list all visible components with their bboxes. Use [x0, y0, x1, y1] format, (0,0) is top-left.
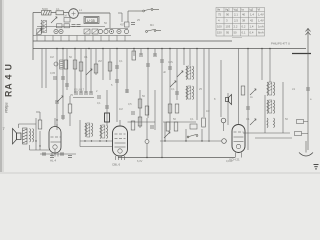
resistor on feed [38, 120, 42, 129]
wire osc row [105, 28, 128, 30]
RIFT1 winding 2 [274, 82, 275, 96]
capacitor [168, 67, 172, 69]
transformer secondary coil [30, 129, 31, 143]
trimmer arrow [170, 81, 176, 87]
junction dots [35, 140, 36, 141]
trimmer circle [54, 62, 58, 66]
svg-text:Vg2: Vg2 [225, 8, 230, 12]
RIFT1 winding [267, 82, 268, 96]
capacitor [115, 80, 119, 82]
wire speaker top [18, 124, 20, 128]
labels [96, 89, 145, 111]
wire under caps [73, 97, 94, 99]
wire V3 anode feeder [238, 49, 240, 118]
svg-text:0,1: 0,1 [246, 117, 250, 121]
tick verticals to rail A [37, 36, 125, 42]
wire [51, 12, 56, 14]
coil core [43, 21, 47, 33]
resistor [94, 64, 98, 73]
resistor [145, 106, 149, 115]
wire [64, 12, 70, 14]
wire verticals [165, 122, 202, 141]
label plate box [84, 17, 99, 24]
labels top [42, 7, 154, 27]
wire bottom rows 2 [255, 137, 292, 139]
svg-text:75: 75 [218, 13, 222, 17]
wire top row [33, 12, 41, 14]
IFT2 core [102, 125, 105, 138]
arrow trimmer [86, 69, 92, 75]
svg-text:0,05: 0,05 [50, 71, 56, 75]
res [125, 22, 130, 27]
arrow trimmer [57, 96, 63, 102]
capacitor [68, 156, 72, 158]
svg-text:150: 150 [217, 31, 222, 35]
resistor R2 box [56, 11, 64, 15]
paper background [0, 0, 320, 174]
RIFT2 core [269, 100, 272, 113]
wire second [80, 146, 112, 148]
svg-text:0,2: 0,2 [242, 25, 246, 29]
pot with arrow [37, 29, 41, 35]
svg-text:2,5: 2,5 [234, 19, 238, 23]
table header text [217, 8, 260, 12]
wire lower row [33, 35, 131, 37]
wire [146, 144, 148, 158]
capacitor [150, 126, 154, 128]
RIFT2 winding [267, 100, 268, 114]
wire [78, 12, 110, 14]
svg-text:1M: 1M [63, 14, 67, 18]
switch contact [187, 135, 198, 138]
resistor [64, 60, 68, 69]
IFT1 winding [85, 123, 86, 137]
resistor [79, 62, 83, 71]
tiny labels [74, 88, 85, 92]
capacitor [65, 84, 69, 86]
wire left drop [79, 120, 81, 147]
IFT2 winding [100, 125, 101, 139]
trimmer arrows [177, 71, 183, 77]
svg-text:0,1: 0,1 [119, 59, 123, 63]
tube V3 envelope [232, 125, 245, 153]
bottom scan edge shading [0, 172, 320, 174]
capacitor [105, 106, 109, 108]
resistor [202, 118, 206, 127]
capacitor [61, 116, 65, 118]
rail junction dots [56, 48, 271, 50]
tube V1 cathode circle [53, 145, 57, 149]
wire top [128, 121, 156, 123]
wire antenna drop [307, 54, 309, 151]
svg-text:100: 100 [217, 25, 222, 29]
svg-text:1,4: 1,4 [250, 13, 254, 17]
left scan edge shading [0, 0, 2, 174]
small speaker icon [226, 95, 232, 105]
wire into tube [56, 124, 58, 127]
svg-text:0,1: 0,1 [97, 101, 101, 105]
svg-text:457: 457 [120, 23, 125, 27]
resistor [68, 104, 72, 113]
svg-text:Vg1: Vg1 [234, 8, 239, 12]
resistor [166, 122, 170, 131]
svg-text:1,4V: 1,4V [258, 13, 264, 17]
tube V2 envelope [113, 126, 128, 156]
svg-text:103: 103 [226, 25, 231, 29]
resistor [168, 104, 172, 113]
vertical feeders right block [170, 49, 228, 141]
svg-text:38: 38 [242, 19, 246, 23]
antenna arrows [306, 29, 311, 36]
svg-text:2M: 2M [98, 59, 102, 63]
tube V1 pins [52, 149, 58, 157]
trimmer arrow [250, 89, 256, 95]
tube V3 cathode circle [236, 144, 240, 148]
labels [246, 95, 288, 121]
wire switch drop [128, 10, 135, 12]
labels [163, 60, 216, 113]
capacitor [61, 77, 65, 79]
svg-text:1mA: 1mA [258, 25, 264, 29]
wire bottom chassis run [118, 157, 235, 159]
wire heater run [160, 140, 221, 142]
pilot lamp circle on heater run [222, 139, 227, 144]
capacitor row [74, 92, 78, 94]
svg-text:Ig2: Ig2 [250, 8, 254, 12]
svg-text:AL 4: AL 4 [50, 159, 56, 163]
IFT4 core [188, 86, 191, 99]
wire [302, 133, 309, 135]
tube V3 top pin [238, 117, 240, 125]
resistor [108, 62, 112, 71]
resistor [175, 104, 179, 113]
junction dots [84, 140, 107, 141]
wire [304, 121, 309, 123]
wave change switch [146, 30, 161, 33]
IFT4 winding 2 [193, 86, 194, 100]
svg-text:0,4: 0,4 [250, 31, 254, 35]
capacitor [42, 153, 46, 155]
vertical feeders [42, 49, 162, 158]
mains switch S1 [135, 9, 159, 12]
capacitor [55, 101, 59, 103]
capacitor [175, 92, 179, 94]
junction dots bottom wire [146, 140, 209, 158]
IFT3 core [188, 66, 191, 79]
svg-text:2,2: 2,2 [234, 25, 238, 29]
labels mid-left [50, 55, 123, 97]
box [190, 124, 197, 129]
svg-text:6,3V: 6,3V [137, 159, 143, 163]
wire [69, 96, 71, 104]
svg-text:50: 50 [234, 31, 238, 35]
IFT3 winding 2 [193, 66, 194, 80]
junction dot [56, 119, 57, 120]
wire mid row [37, 26, 105, 28]
svg-text:2,1: 2,1 [234, 13, 238, 17]
wire left trunk vertical [32, 13, 34, 61]
tube V2 top pin [119, 120, 121, 126]
table body text [217, 13, 264, 35]
capacitor [160, 60, 164, 62]
junction circle [145, 140, 149, 144]
capacitor [89, 92, 93, 94]
speaker cone [13, 129, 22, 145]
svg-text:RA 4 U: RA 4 U [4, 63, 14, 97]
wire top feed [39, 112, 41, 120]
switch arrow [164, 132, 170, 138]
capacitor [84, 92, 88, 94]
tuning gang boxes hatched [84, 29, 98, 34]
transformer secondary coil 2 [33, 129, 34, 143]
svg-text:90: 90 [226, 13, 230, 17]
svg-text:Philips: Philips [5, 102, 9, 113]
resistor 2 [295, 132, 302, 136]
padder trimmer circles [54, 29, 129, 33]
tube V2 grids [115, 134, 126, 147]
IFT1 winding 2 [92, 123, 93, 137]
box small [64, 18, 70, 23]
tube V2 cathode circle [118, 149, 122, 153]
svg-text:PHILIPS 477 U: PHILIPS 477 U [271, 42, 290, 46]
svg-text:5000: 5000 [42, 7, 48, 11]
capacitor [131, 112, 135, 114]
IFT3 winding [186, 66, 187, 80]
tube V1 top pin [54, 118, 56, 127]
resistor [132, 51, 136, 60]
RIFT2 winding 2 [274, 100, 275, 114]
capacitor [77, 25, 81, 27]
tube V3 pins [236, 153, 242, 158]
wire bottom rows [243, 132, 290, 134]
wire drop [109, 13, 111, 28]
svg-text:0,1uF: 0,1uF [226, 159, 233, 163]
lamp circle [69, 9, 79, 19]
wire top rail A [33, 40, 232, 42]
capacitor [79, 92, 83, 94]
svg-text:95: 95 [226, 31, 230, 35]
earth mark [314, 165, 319, 169]
svg-text:L5 L6 L7: L5 L6 L7 [74, 88, 85, 92]
capacitor [153, 54, 157, 56]
svg-text:4,7k: 4,7k [168, 60, 174, 64]
capacitor [125, 90, 129, 92]
svg-text:42: 42 [250, 19, 254, 23]
resistor [73, 60, 77, 69]
wire antenna heavy lead [292, 53, 311, 55]
trimmer arrow [51, 17, 57, 23]
IFT1 core [87, 123, 90, 137]
capacitor [72, 25, 76, 27]
svg-text:1M: 1M [50, 55, 54, 59]
resistor [138, 99, 142, 108]
svg-text:1M: 1M [206, 109, 210, 113]
wire bottom of IFTs [80, 140, 112, 142]
table frame [216, 8, 265, 37]
chassis ground arc [299, 153, 313, 157]
capacitor [139, 54, 143, 56]
under tube parts wire [40, 153, 76, 155]
RIFT1 core [269, 82, 272, 95]
wire to ground [305, 141, 307, 153]
resistor boxes row [57, 24, 63, 28]
resistor [138, 117, 142, 126]
capacitor [50, 156, 54, 158]
svg-text:40: 40 [242, 13, 246, 17]
capacitor [53, 77, 57, 79]
RIFT3 winding [266, 118, 269, 128]
resistor [297, 120, 304, 124]
svg-text:M4: M4 [150, 23, 154, 27]
labels [173, 117, 194, 121]
tube V1 envelope [49, 127, 61, 154]
tube V1 grid dashes [51, 137, 61, 142]
capacitor [60, 153, 64, 155]
resistor [60, 60, 64, 69]
capacitor [246, 107, 250, 109]
svg-text:0,1: 0,1 [84, 55, 88, 59]
wire antenna vertical [307, 28, 309, 54]
resistor R1 hatched [42, 11, 52, 16]
IFT4 winding [186, 86, 187, 100]
capacitor [115, 66, 119, 68]
wire dial lamp pair [118, 13, 122, 22]
tube V3 grids [234, 132, 244, 142]
resistor dark [105, 113, 110, 122]
resistor [241, 86, 245, 95]
RIFT3 winding 2 [273, 118, 276, 128]
IFT2 winding 2 [107, 125, 108, 139]
trimmer arrow [250, 119, 256, 125]
svg-text:0,1: 0,1 [171, 87, 175, 91]
resistor [174, 122, 178, 131]
caption tick under table [232, 37, 242, 39]
svg-text:Vf: Vf [258, 8, 261, 12]
svg-text:uF: uF [163, 70, 166, 74]
svg-text:U·35: U·35 [87, 19, 95, 23]
feeders [248, 49, 283, 151]
wire main rail B [33, 48, 306, 50]
svg-text:0,1: 0,1 [242, 31, 246, 35]
trimmer dots [55, 31, 119, 32]
oscillator coil L1 [41, 20, 42, 34]
wire vertical pair [30, 118, 50, 150]
svg-text:CBL 6: CBL 6 [112, 163, 121, 167]
lamp cross [72, 12, 76, 16]
cap cluster [131, 23, 135, 25]
arrow [36, 28, 42, 34]
svg-text:1,4: 1,4 [250, 25, 254, 29]
svg-text:1M: 1M [119, 107, 123, 111]
transformer primary hatched [23, 128, 28, 144]
svg-text:6mA: 6mA [258, 31, 264, 35]
capacitor on drop [306, 88, 310, 90]
svg-text:0,5: 0,5 [128, 102, 132, 106]
capacitor [146, 64, 150, 66]
svg-text:0,1: 0,1 [56, 7, 60, 11]
svg-text:1,4V: 1,4V [258, 19, 264, 23]
lamp circle [221, 118, 226, 123]
wire row [163, 121, 196, 123]
vertical feeders [107, 90, 155, 140]
svg-text:0,1: 0,1 [190, 117, 194, 121]
tube V2 pins [116, 156, 125, 160]
resistor [131, 121, 135, 130]
wire [223, 123, 225, 131]
capacitor [97, 96, 101, 98]
